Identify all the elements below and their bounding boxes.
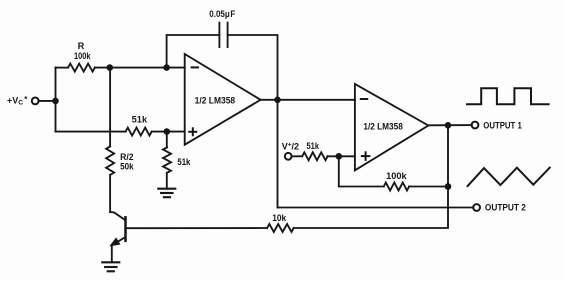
transistor Q1 collector (110, 212, 125, 220)
wire 100k to output vertical (409, 186, 448, 188)
op-amp U1 (185, 54, 261, 145)
wire U2 output to OUTPUT 1 (428, 124, 471, 126)
resistor R6 100k (384, 183, 409, 191)
triangle wave symbol (468, 168, 550, 186)
wire noninverting line (56, 131, 126, 133)
node feedback junction (336, 153, 343, 160)
resistor R4 51k vertical (166, 132, 168, 148)
wire U1 output to U2 inverting input (261, 99, 355, 101)
node U2 output (445, 122, 452, 129)
svg-text:100k: 100k (74, 51, 91, 61)
wire resistor R to op-amp minus (95, 67, 185, 69)
input terminal V+/2 (285, 153, 292, 160)
node cap tap (163, 64, 170, 71)
wire terminal to 51k (292, 155, 303, 157)
wire cap right to output vertical (228, 35, 278, 100)
svg-text:50k: 50k (120, 162, 134, 172)
capacitor C1 0.05uF (218, 23, 220, 47)
op-amp U2 minus sign (361, 98, 367, 100)
resistor R7 10k (267, 224, 294, 232)
svg-text:1/2 LM358: 1/2 LM358 (363, 122, 403, 132)
transistor Q1 emitter (112, 237, 126, 262)
op-amp U2 plus sign (362, 155, 370, 157)
resistor R3 51k (126, 128, 152, 136)
wire feedback vertical (339, 156, 384, 186)
svg-text:10k: 10k (272, 213, 287, 223)
output terminal OUTPUT 2 (473, 204, 480, 211)
wire input to node (39, 100, 56, 102)
wire base (127, 227, 267, 229)
input terminal +VC (32, 98, 39, 105)
svg-text:OUTPUT 1: OUTPUT 1 (483, 120, 522, 131)
transistor Q1 emitter arrow (111, 238, 120, 245)
svg-text:0.05μ F: 0.05μ F (209, 9, 235, 19)
node 100k output junction (445, 183, 452, 190)
svg-text:51k: 51k (177, 157, 191, 167)
node R junction (107, 64, 114, 71)
resistor R1 100k (68, 64, 95, 72)
svg-text:100k: 100k (386, 171, 408, 181)
svg-text:51k: 51k (132, 115, 149, 125)
op-amp U1 minus sign (192, 66, 198, 68)
wire 51k to op-amp plus (328, 155, 355, 157)
node VC junction (52, 98, 59, 105)
wire inverting input line (56, 67, 69, 69)
node U1 output (274, 97, 281, 104)
transistor Q1 base bar (124, 217, 127, 241)
svg-text:1/2 LM358: 1/2 LM358 (195, 95, 236, 105)
op-amp U2 (355, 84, 429, 170)
svg-text:OUTPUT 2: OUTPUT 2 (485, 203, 526, 214)
wire triangle output vertical (277, 100, 279, 208)
wire OUTPUT 2 line (278, 207, 474, 209)
op-amp U1 plus sign (189, 131, 196, 133)
svg-text:R/2: R/2 (120, 152, 134, 162)
wire square feedback vertical (294, 125, 448, 228)
output terminal OUTPUT 1 (472, 122, 479, 129)
square wave symbol (467, 88, 549, 104)
wire 51k to op-amp plus (152, 131, 185, 133)
svg-text:R: R (78, 41, 85, 51)
wire left vertical (55, 68, 57, 132)
resistor R5 51k (302, 152, 327, 160)
ground G1 (102, 261, 119, 263)
wire cap left vertical (167, 35, 220, 68)
resistor R2 R/2 50k vertical (109, 68, 111, 147)
svg-text:51k: 51k (307, 141, 320, 151)
ground G2 (158, 188, 175, 190)
node plus divider junction (164, 128, 171, 135)
